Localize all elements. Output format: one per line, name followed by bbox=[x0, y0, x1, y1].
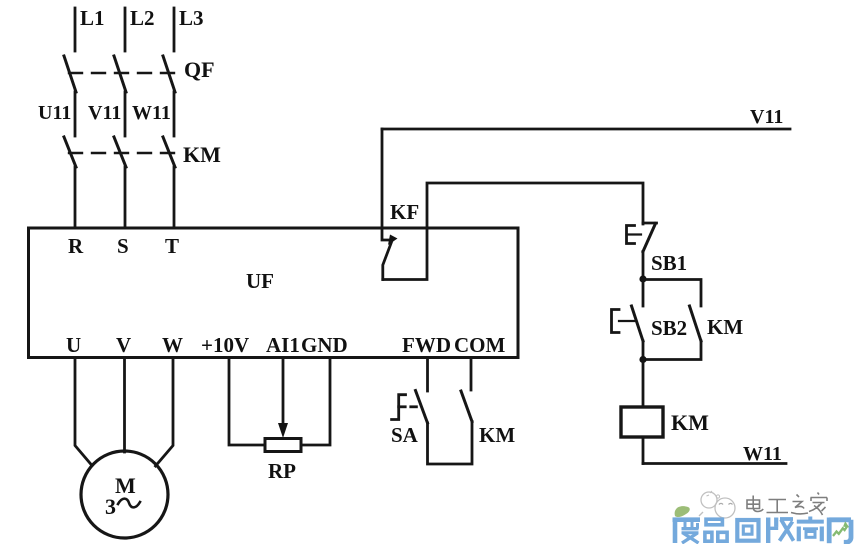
wire KF riser bbox=[381, 129, 384, 228]
svg-text:M: M bbox=[115, 473, 136, 498]
svg-text:SB2: SB2 bbox=[651, 316, 687, 340]
svg-text:L1: L1 bbox=[80, 6, 105, 30]
svg-text:U: U bbox=[66, 333, 81, 357]
terminal AI1 bbox=[266, 333, 300, 357]
svg-text:U11: U11 bbox=[38, 102, 71, 124]
node L2 bbox=[125, 6, 155, 51]
watermark mascot bbox=[699, 491, 735, 518]
watermark glyph 品 bbox=[705, 519, 727, 541]
watermark text 电工之家 bbox=[747, 493, 827, 516]
watermark glyph 废 bbox=[673, 520, 701, 543]
svg-text:V11: V11 bbox=[88, 102, 121, 124]
junction node SB2 bottom bbox=[639, 356, 646, 363]
svg-text:UF: UF bbox=[246, 269, 274, 293]
svg-text:RP: RP bbox=[268, 459, 296, 483]
svg-text:SA: SA bbox=[391, 423, 419, 447]
wire KF to SB1 bbox=[383, 183, 643, 280]
wire KM to R bbox=[74, 167, 77, 228]
svg-text:W11: W11 bbox=[132, 102, 171, 124]
wire to coil bbox=[642, 360, 645, 408]
svg-text:W11: W11 bbox=[743, 443, 782, 465]
inverter UF box bbox=[29, 228, 519, 358]
node W11 rail bbox=[643, 443, 786, 465]
potentiometer RP bbox=[265, 439, 301, 484]
svg-text:KM: KM bbox=[479, 423, 515, 447]
pushbutton SB2 (NO) bbox=[612, 279, 688, 360]
svg-text:L2: L2 bbox=[130, 6, 155, 30]
wire AI1 wiper bbox=[278, 358, 288, 439]
interlock contact KM bbox=[428, 391, 516, 464]
svg-text:FWD: FWD bbox=[402, 333, 451, 357]
contactor coil KM bbox=[621, 407, 709, 437]
svg-text:GND: GND bbox=[301, 333, 348, 357]
svg-text:SB1: SB1 bbox=[651, 251, 687, 275]
wire V to motor bbox=[123, 358, 126, 453]
wire V11 segment bbox=[88, 92, 125, 136]
wire W to motor bbox=[156, 358, 174, 467]
circuit breaker QF bbox=[64, 56, 215, 92]
svg-text:KM: KM bbox=[671, 410, 709, 435]
wire KM to S bbox=[124, 167, 127, 228]
node L1 bbox=[75, 6, 105, 51]
svg-text:S: S bbox=[117, 234, 129, 258]
contactor main contacts KM bbox=[64, 137, 221, 167]
watermark glyph 商 bbox=[797, 517, 824, 542]
terminal R bbox=[68, 234, 84, 258]
watermark glyph 收 bbox=[767, 518, 794, 544]
junction node SB1/SB2 bbox=[639, 275, 646, 282]
svg-text:AI1: AI1 bbox=[266, 333, 300, 357]
wire U11 segment bbox=[38, 92, 75, 136]
svg-text:QF: QF bbox=[184, 57, 215, 82]
switch SA bbox=[391, 391, 428, 448]
svg-text:R: R bbox=[68, 234, 84, 258]
auxiliary contact KM (hold-in) bbox=[643, 280, 743, 360]
svg-text:KF: KF bbox=[390, 200, 419, 224]
svg-text:COM: COM bbox=[454, 333, 506, 357]
terminal +10V bbox=[201, 333, 249, 357]
terminal U bbox=[66, 333, 81, 357]
svg-text:3: 3 bbox=[105, 494, 116, 519]
wire U to motor bbox=[75, 358, 92, 466]
terminal FWD bbox=[402, 333, 451, 357]
terminal COM bbox=[454, 333, 506, 357]
svg-text:KM: KM bbox=[183, 142, 221, 167]
wire +10V to RP bbox=[229, 358, 265, 446]
motor M 3~ bbox=[81, 451, 168, 538]
watermark glyph 回 bbox=[737, 520, 758, 541]
pushbutton SB1 (NC) bbox=[627, 223, 688, 279]
wire COM bbox=[470, 358, 473, 391]
wire W11 segment bbox=[132, 92, 174, 136]
svg-text:KM: KM bbox=[707, 315, 743, 339]
svg-text:V11: V11 bbox=[750, 106, 783, 128]
svg-text:V: V bbox=[116, 333, 131, 357]
svg-text:L3: L3 bbox=[179, 6, 204, 30]
wire coil to W11 bbox=[642, 437, 645, 464]
terminal GND bbox=[301, 333, 348, 357]
wire KM to T bbox=[173, 167, 176, 228]
wire GND to RP bbox=[301, 358, 330, 446]
terminal V bbox=[116, 333, 131, 357]
watermark leaf bbox=[675, 506, 690, 517]
svg-text:W: W bbox=[162, 333, 183, 357]
terminal T bbox=[165, 234, 179, 258]
node L3 bbox=[174, 6, 204, 51]
wire FWD bbox=[426, 358, 429, 392]
node V11 rail bbox=[382, 106, 790, 129]
svg-text:+10V: +10V bbox=[201, 333, 249, 357]
terminal W bbox=[162, 333, 183, 357]
svg-text:T: T bbox=[165, 234, 179, 258]
relay contact KF bbox=[382, 200, 419, 280]
terminal S bbox=[117, 234, 129, 258]
watermark icon 网 with arrow bbox=[829, 518, 851, 544]
